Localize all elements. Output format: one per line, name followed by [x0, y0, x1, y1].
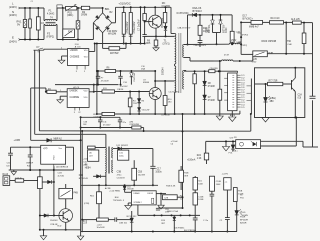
- wire AC2 into bridge: [92, 23, 94, 40]
- relay RY3: [59, 188, 73, 198]
- wire relay branch: [62, 8, 64, 40]
- svg-text:508DHI: 508DHI: [162, 67, 164, 75]
- resistor R15: [303, 23, 305, 33]
- wire T1 primary bottom: [174, 64, 176, 66]
- transistor Q5 regulator: [291, 80, 293, 90]
- svg-text:RC: RC: [162, 2, 166, 5]
- inductor L2: [229, 43, 240, 44]
- ground bottom left: [43, 230, 45, 236]
- transformer T1 primary: [175, 34, 176, 65]
- svg-text:+150mA: +150mA: [187, 159, 196, 162]
- resistor R22 clamp: [199, 15, 201, 25]
- svg-text:100K: 100K: [198, 183, 203, 185]
- fuse F2 on bus: [57, 5, 62, 8]
- wire DC- rail: [95, 43, 145, 45]
- svg-text:C180: C180: [207, 27, 209, 33]
- resistor RC snubber: [165, 7, 167, 12]
- ground mid right: [225, 141, 227, 146]
- wire bridge DC+ out: [112, 22, 116, 24]
- svg-text:B02 P3R1B: B02 P3R1B: [184, 230, 195, 232]
- resistor R6 emitter: [154, 40, 158, 46]
- svg-text:C12 1u: C12 1u: [15, 177, 23, 179]
- svg-text:47u/40V: 47u/40V: [103, 124, 111, 126]
- wire U1A pins: [76, 66, 78, 70]
- wire U1B output: [89, 91, 94, 93]
- wire R11 row: [94, 91, 102, 93]
- wire mid-bottom rail: [138, 214, 200, 216]
- svg-text:C4A 2G7/4KV: C4A 2G7/4KV: [177, 26, 191, 29]
- resistor R12: [231, 15, 233, 31]
- capacitor C21 box: [224, 178, 231, 190]
- wire secondary bottom rail: [175, 113, 240, 115]
- diode D2B: [42, 181, 47, 183]
- svg-text:R5B: R5B: [238, 191, 243, 193]
- svg-text:(P2P2): (P2P2): [242, 34, 249, 36]
- resistor R07: [193, 178, 198, 191]
- diode D15: [232, 141, 234, 145]
- svg-text:WA10M: WA10M: [108, 33, 116, 36]
- capacitor C7a: [97, 71, 99, 76]
- wire secondary 50V: [184, 43, 230, 45]
- zener D11a: [220, 15, 222, 20]
- op-amp U3 IC box: [228, 73, 237, 111]
- resistor R10b: [164, 81, 166, 96]
- wire U9 out row: [9, 169, 74, 171]
- capacitor C6 bulk electrolytic: [129, 13, 132, 35]
- svg-text:BC1B 33C: BC1B 33C: [127, 216, 137, 218]
- wire caps bus: [81, 127, 132, 129]
- svg-text:D10B: D10B: [198, 199, 204, 201]
- capacitor C20: [194, 205, 196, 218]
- ground under LED: [262, 118, 270, 123]
- svg-text:R77 75R: R77 75R: [269, 81, 278, 83]
- vertical bus A: [80, 117, 82, 234]
- svg-text:E: E: [12, 36, 14, 40]
- svg-text:C10/25V: C10/25V: [117, 177, 126, 179]
- svg-text:Y201.2W: Y201.2W: [133, 103, 141, 105]
- resistor R21 row: [97, 218, 109, 221]
- transformer T2 primary: [105, 148, 106, 173]
- svg-text:C4 2G2/4KV: C4 2G2/4KV: [169, 91, 180, 93]
- resistor R61: [98, 185, 100, 192]
- resistor R16: [209, 70, 215, 73]
- optocoupler U2: [236, 140, 261, 149]
- svg-text:1N4148: 1N4148: [127, 189, 134, 191]
- diode D3: [165, 23, 167, 26]
- wire rail FB3: [34, 50, 36, 134]
- svg-text:+UFB: +UFB: [14, 139, 21, 142]
- capacitor C13: [15, 179, 24, 182]
- capacitor C7: [140, 7, 142, 43]
- svg-text:GND: GND: [252, 61, 257, 63]
- svg-text:(37V1): (37V1): [163, 43, 170, 45]
- node C10B terminal: [238, 42, 242, 44]
- wire T2 bottom pin: [105, 173, 107, 186]
- relay contact RY1: [63, 29, 75, 38]
- resistor R13: [270, 21, 284, 24]
- inductor T4 common-mode choke: [45, 19, 56, 20]
- wire aux row: [155, 80, 174, 82]
- svg-text:(NR1): (NR1): [67, 15, 73, 17]
- svg-text:BYW/D45: BYW/D45: [79, 178, 89, 180]
- svg-text:+(U): +(U): [43, 148, 48, 150]
- resistor R5 base feed: [144, 7, 146, 13]
- svg-text:P4B: P4B: [74, 193, 79, 195]
- wire RY3 top: [65, 184, 67, 188]
- svg-text:C10B: C10B: [198, 196, 204, 198]
- svg-text:C1: C1: [31, 1, 33, 3]
- resistor R18: [132, 126, 141, 129]
- wire terminal drop: [240, 22, 242, 54]
- resistor R4: [103, 47, 109, 49]
- wire AC live bus: [20, 7, 44, 9]
- svg-text:DM: DM: [83, 124, 86, 126]
- wire zener top: [131, 211, 133, 214]
- capacitor C3B2: [114, 217, 116, 221]
- svg-text:1000u: 1000u: [155, 172, 162, 174]
- wire secondary rail 16V: [184, 70, 186, 72]
- resistor R11: [102, 90, 115, 93]
- ground under U8: [128, 202, 131, 204]
- wire row 208: [158, 207, 183, 209]
- svg-text:DK03 C9H19B: DK03 C9H19B: [262, 41, 277, 43]
- svg-text:470u/400V: 470u/400V: [126, 21, 129, 33]
- wire choke feed top: [43, 8, 45, 21]
- diode D17 box: [251, 20, 263, 24]
- wire rail FB1: [30, 88, 32, 140]
- svg-text:+C1B: +C1B: [83, 159, 89, 161]
- svg-text:BR1: BR1: [105, 8, 110, 11]
- wire T1 primary return: [174, 93, 176, 115]
- svg-text:C3B 10n: C3B 10n: [119, 223, 128, 225]
- resistor R1B: [129, 92, 131, 99]
- svg-text:R2B 3.3K: R2B 3.3K: [166, 186, 176, 188]
- svg-text:B200R: B200R: [240, 223, 247, 225]
- wire relay left: [241, 53, 253, 55]
- svg-text:+C19: +C19: [97, 224, 103, 226]
- svg-text:1N4148: 1N4148: [50, 220, 58, 222]
- svg-text:P01: P01: [68, 12, 73, 15]
- bridge rectifier BR1: [93, 13, 111, 33]
- transistor Q1: [149, 15, 162, 28]
- svg-text:U4000K: U4000K: [70, 50, 79, 52]
- ground left of RA13: [13, 170, 15, 172]
- svg-text:(P4P2): (P4P2): [241, 45, 248, 47]
- op-amp U1B box: [67, 89, 89, 108]
- svg-text:C/dF: C/dF: [287, 44, 292, 46]
- capacitor C8 clamp: [199, 35, 201, 40]
- svg-text:DY208: DY208: [208, 100, 216, 102]
- wire relay right: [267, 53, 312, 55]
- diode D7: [203, 95, 207, 99]
- svg-text:(UBG): (UBG): [270, 98, 277, 100]
- svg-text:47u/50V: 47u/50V: [120, 86, 128, 88]
- LED D16: [236, 202, 238, 211]
- resistor R26: [233, 188, 237, 202]
- wire choke feed bottom: [43, 25, 45, 40]
- svg-text:MMB 4n7: MMB 4n7: [249, 27, 259, 29]
- resistor R19: [88, 146, 96, 149]
- svg-text:C2A: C2A: [298, 94, 303, 97]
- svg-text:1.3K: 1.3K: [197, 158, 202, 160]
- wire Q4 collector: [65, 199, 67, 209]
- svg-text:52V: 52V: [230, 138, 234, 140]
- capacitor C6b: [144, 22, 146, 35]
- svg-text:C1B: C1B: [138, 172, 143, 174]
- wire U1A input: [43, 49, 45, 50]
- wire feedback loop: [255, 68, 305, 118]
- wire zener join: [213, 32, 221, 34]
- capacitor C11: [10, 147, 12, 153]
- svg-text:22M: 22M: [129, 121, 133, 123]
- svg-text:+C1PS: +C1PS: [222, 174, 229, 176]
- transformer T2 secondary: [112, 148, 113, 159]
- wire mid vertical right: [285, 23, 287, 54]
- svg-text:BZT03-: BZT03-: [221, 24, 225, 33]
- svg-text:U4000K: U4000K: [70, 91, 79, 93]
- svg-text:1MRUF: 1MRUF: [26, 163, 34, 165]
- wire choke out bottom: [56, 24, 57, 26]
- svg-text:HEB4: HEB4: [85, 167, 92, 169]
- relay RY2 degauss: [253, 51, 267, 57]
- wire mid vertical: [53, 166, 55, 215]
- svg-text:470u: 470u: [117, 175, 123, 177]
- wire supply rail mid: [55, 84, 119, 86]
- svg-text:4.0A/G: 4.0A/G: [47, 13, 54, 16]
- svg-text:D5A: D5A: [141, 68, 146, 71]
- resistor R7: [97, 70, 105, 72]
- wire U3 left pin stubs: [224, 77, 227, 79]
- connector X2 box: [163, 195, 178, 200]
- svg-text:C /1n: C /1n: [203, 220, 209, 222]
- wire bottom rail left: [40, 229, 81, 231]
- resistor R2 inrush: [81, 6, 89, 9]
- capacitor C17: [152, 149, 154, 167]
- wire rail to R24: [205, 141, 207, 153]
- wire bottom rail right: [81, 231, 237, 233]
- svg-text:100K: 100K: [216, 184, 221, 186]
- svg-text:C1B: C1B: [83, 219, 85, 224]
- svg-text:9CD: 9CD: [57, 225, 62, 227]
- svg-text:47uH: 47uH: [224, 55, 229, 57]
- svg-text:A2 LM/R6CB: A2 LM/R6CB: [56, 166, 68, 169]
- varistor RV2: [77, 8, 79, 21]
- svg-text:9V: 9V: [17, 23, 20, 27]
- diode D6: [138, 92, 140, 99]
- svg-text:A7D4: A7D4: [230, 114, 236, 117]
- svg-text:R13 C10: R13 C10: [271, 18, 281, 20]
- wire pin rail right: [250, 79, 252, 115]
- resistor R9 row: [97, 113, 102, 115]
- capacitor C4B: [194, 71, 196, 74]
- zener D10: [212, 15, 214, 20]
- capacitor C5 bulk electrolytic: [122, 13, 125, 35]
- node C2A terminal: [238, 32, 242, 34]
- diode D14: [47, 138, 51, 142]
- wire Q2 emitter: [154, 100, 156, 115]
- wire bridge DC- out: [102, 33, 104, 49]
- svg-text:47u: 47u: [123, 122, 126, 124]
- diode small D17b: [173, 217, 176, 220]
- capacitor C1Bb: [156, 207, 160, 209]
- svg-text:+C14 HEB1: +C14 HEB1: [109, 191, 121, 193]
- wire U9 input row: [11, 146, 41, 148]
- svg-text:A 1C6: A 1C6: [75, 46, 82, 49]
- svg-text:BYD33J: BYD33J: [193, 10, 203, 13]
- wire secondary mid: [184, 57, 190, 59]
- wire T2 top feed: [105, 134, 107, 147]
- svg-text:1R5M: 1R5M: [81, 15, 87, 17]
- svg-text:C9H19B: C9H19B: [210, 68, 219, 70]
- svg-text:C1B: C1B: [83, 121, 88, 123]
- svg-text:E300F: E300F: [148, 193, 154, 195]
- wire opto out B: [261, 145, 297, 147]
- capacitor CX1 X2-class: [37, 8, 39, 17]
- capacitor C23: [210, 193, 215, 195]
- ground at U1A: [58, 60, 65, 63]
- varistor RV1: [24, 8, 26, 20]
- svg-text:C10B: C10B: [237, 41, 243, 43]
- svg-text:CA3080E: CA3080E: [70, 55, 80, 58]
- svg-text:1C5: 1C5: [241, 107, 244, 109]
- svg-text:CA3080E: CA3080E: [70, 96, 80, 99]
- svg-text:(240V): (240V): [9, 40, 17, 44]
- wire U8 right out: [156, 193, 166, 195]
- svg-text:D4 BYV26C: D4 BYV26C: [177, 13, 189, 15]
- wire X2 to vertical: [177, 196, 182, 198]
- svg-text:4u7/40: 4u7/40: [58, 175, 65, 177]
- svg-text:R6B DY10A: R6B DY10A: [167, 210, 178, 213]
- svg-text:BU508AF: BU508AF: [161, 17, 164, 27]
- svg-text:P10R: P10R: [240, 217, 246, 219]
- diode D3B: [40, 215, 44, 217]
- svg-text:C2B: C2B: [164, 197, 169, 199]
- wire U1B inv input to ground: [60, 95, 67, 97]
- svg-text:DRAIN: DRAIN: [134, 192, 140, 195]
- svg-text:C2A: C2A: [236, 31, 241, 34]
- resistor R06: [210, 176, 215, 191]
- wire Q4 base: [54, 215, 63, 217]
- svg-text:C10B: C10B: [216, 181, 222, 183]
- svg-text:C200: C200: [226, 27, 228, 33]
- capacitor C2A: [310, 95, 316, 97]
- LED D12: [265, 84, 267, 97]
- wire HT to T1 primary: [170, 7, 172, 33]
- svg-text:6DB06: 6DB06: [143, 82, 150, 84]
- resistor R77: [255, 83, 268, 85]
- wire caps feed: [81, 116, 120, 118]
- svg-text:/35V: /35V: [86, 219, 88, 224]
- wire U9 bottom pin: [53, 164, 55, 170]
- capacitor C11b filter: [119, 117, 121, 120]
- svg-text:DY208: DY208: [208, 86, 216, 88]
- wire U9 out: [66, 146, 74, 148]
- wire Q1 collector: [154, 7, 156, 15]
- transistor Q4: [59, 209, 73, 223]
- wire top right bus: [241, 21, 251, 23]
- ground right of U8: [158, 205, 165, 209]
- wire U1B pins: [74, 107, 76, 110]
- wire snubber to T1: [187, 15, 189, 45]
- svg-text:+310VDC: +310VDC: [118, 2, 130, 6]
- transistor Q2: [149, 88, 161, 100]
- svg-text:10u/3W: 10u/3W: [138, 175, 145, 177]
- svg-text:470u/400V: 470u/400V: [133, 21, 136, 33]
- svg-text:AC3B: AC3B: [105, 187, 111, 190]
- svg-text:BYV26C+: BYV26C+: [243, 18, 254, 20]
- ground under Q1: [153, 48, 159, 51]
- wire aux vertical: [96, 44, 98, 115]
- svg-text:TDP0605. 3: TDP0605. 3: [113, 200, 125, 202]
- svg-text:(240V): (240V): [9, 13, 17, 17]
- svg-text:C/BOM: C/BOM: [117, 89, 124, 91]
- wire emitter row: [145, 35, 175, 37]
- wire opto out A: [261, 140, 304, 142]
- svg-text:RY1: RY1: [68, 32, 73, 34]
- svg-text:0R5: 0R5: [146, 43, 151, 45]
- transformer T1 core: [178, 33, 180, 93]
- svg-text:C7 1n/2kV: C7 1n/2kV: [137, 19, 140, 31]
- svg-text:(C2B): (C2B): [84, 203, 90, 205]
- wire RA13 out: [10, 180, 16, 182]
- wire rail FB4: [45, 88, 47, 92]
- wire rail to bus riser: [250, 114, 252, 131]
- wire rail to IC: [237, 71, 239, 72]
- svg-text:D17: D17: [243, 16, 248, 18]
- svg-text:47u/50V: 47u/50V: [101, 80, 109, 82]
- transformer T2 core: [107, 147, 109, 174]
- op-amp U8 controller box: [131, 191, 156, 205]
- svg-text:+C: +C: [225, 182, 228, 184]
- svg-text:+C10uF: +C10uF: [171, 141, 179, 143]
- zener D5: [130, 71, 132, 73]
- box U7: [118, 150, 129, 160]
- resistor R30: [39, 170, 41, 177]
- ground near R17: [216, 116, 223, 120]
- resistor R24: [204, 153, 208, 160]
- svg-text:4R7/5W: 4R7/5W: [110, 53, 119, 55]
- resistor R25: [179, 170, 184, 182]
- wire U3 bottom stub: [239, 111, 241, 114]
- ground at U1B: [57, 100, 64, 103]
- ground under U3: [231, 111, 233, 117]
- svg-text:Cd: Cd: [171, 144, 174, 146]
- wire Q1 emitter: [155, 28, 157, 40]
- capacitor C22: [225, 217, 230, 219]
- capacitor C1: [29, 8, 31, 19]
- zener ZD4: [130, 218, 134, 222]
- capacitor C12: [29, 147, 31, 155]
- wire opto in: [206, 140, 236, 142]
- resistor R20: [133, 160, 135, 168]
- svg-text:C3B: C3B: [117, 172, 122, 174]
- wire L1 to R17: [219, 61, 221, 89]
- svg-text:(240V): (240V): [9, 5, 17, 9]
- diode D6b: [138, 108, 141, 112]
- regulator U9 box: [41, 145, 66, 164]
- wire rail FB2: [38, 50, 40, 131]
- thermistor PR1 NTC: [66, 6, 77, 10]
- wire U1A inv input to ground: [62, 55, 68, 57]
- svg-text:C10 D10B: C10 D10B: [161, 115, 170, 117]
- wire AC1 into bridge: [102, 8, 104, 13]
- resistor R1: [46, 91, 47, 93]
- diode D8: [204, 71, 206, 81]
- wire standby rail: [81, 184, 158, 186]
- svg-text:C10 600V: C10 600V: [107, 31, 118, 33]
- svg-text:Y10/1.2W: Y10/1.2W: [134, 73, 136, 82]
- wire AC neutral bus: [20, 39, 44, 41]
